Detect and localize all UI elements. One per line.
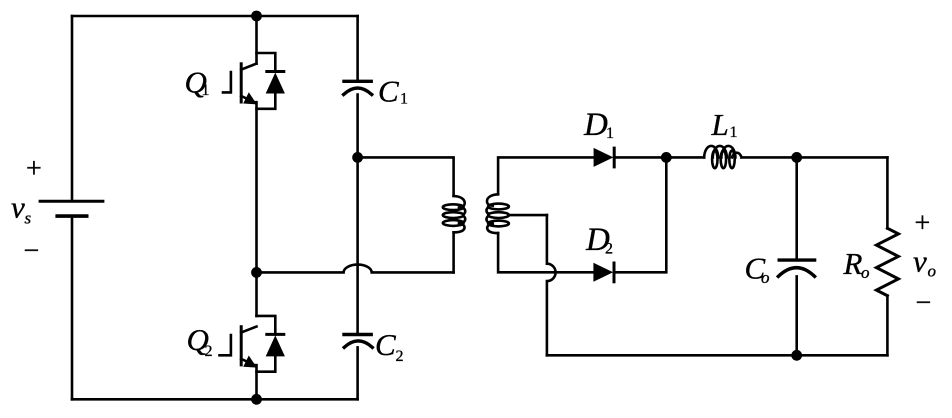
wire D1 cathode to node B <box>614 156 704 159</box>
wire Co branch bottom <box>795 276 798 355</box>
wire top rail <box>72 15 358 18</box>
wire secondary top lead to D1 <box>498 157 593 194</box>
Q1 diode branch top wire <box>257 53 276 72</box>
capacitor Co <box>778 260 814 276</box>
Q2 diode branch bottom wire <box>257 356 276 372</box>
Q1 freewheel diode cathode bar <box>267 70 284 73</box>
svg-text:v: v <box>11 190 25 225</box>
Q2 freewheel diode cathode bar <box>267 333 284 336</box>
wire center tap down to bottom rail (with hop over D2 wire) <box>547 215 556 355</box>
Q2 diode branch top wire <box>257 316 276 335</box>
wire left rail upper (battery top lead) <box>71 16 74 201</box>
svg-text:D: D <box>583 107 608 143</box>
node A (C1-C2 junction) <box>352 152 363 163</box>
battery vs short plate <box>57 214 86 218</box>
Q2 emitter arrow <box>243 356 257 368</box>
svg-text:1: 1 <box>400 90 408 107</box>
wire left rail lower (battery bottom lead) <box>71 217 74 400</box>
node B (D1-D2 cathodes / L1) <box>661 152 672 163</box>
Q1 emitter arrow <box>243 92 257 104</box>
svg-text:C: C <box>378 74 399 109</box>
transistor Q1 (IGBT) <box>223 53 285 109</box>
svg-text:o: o <box>761 268 770 287</box>
svg-text:s: s <box>25 209 32 228</box>
wire half-bridge midpoint to primary bottom (with hop over C branch) <box>257 265 454 273</box>
wire Q branch middle <box>255 102 258 316</box>
svg-text:+: + <box>915 208 931 239</box>
Q1 collector diagonal <box>241 64 256 70</box>
transformer secondary winding <box>486 194 508 233</box>
svg-text:+: + <box>26 154 42 185</box>
svg-text:1: 1 <box>606 125 614 142</box>
transistor Q2 (IGBT) <box>220 316 285 372</box>
wire secondary bottom lead to D2 <box>498 233 593 272</box>
wire C branch top <box>356 16 359 81</box>
svg-text:C: C <box>375 327 396 362</box>
C2 curved plate <box>344 341 372 348</box>
svg-text:o: o <box>928 262 937 281</box>
wire secondary center tap <box>509 214 547 217</box>
wire Q2 emitter to bottom rail <box>255 365 258 399</box>
resistor Ro zigzag <box>876 228 898 295</box>
svg-text:o: o <box>861 263 870 282</box>
diode D2 <box>593 263 614 282</box>
wire bottom-left rail <box>72 398 358 401</box>
wire node A to primary top <box>358 157 454 196</box>
Q1 freewheel diode triangle <box>266 73 285 94</box>
svg-text:−: − <box>24 236 40 267</box>
Q2 body bar <box>240 327 243 365</box>
wire primary bottom lead <box>452 232 455 272</box>
C2 flat plate <box>344 333 371 336</box>
transformer primary winding <box>443 196 465 232</box>
wire C branch bottom <box>356 347 359 399</box>
wire right branch down to resistor <box>886 157 889 228</box>
wire resistor bottom to bottom-right rail <box>886 296 889 356</box>
wire bottom-right rail <box>547 354 888 357</box>
svg-text:L: L <box>711 107 729 142</box>
Q1 diode branch bottom wire <box>257 93 276 109</box>
wire Co branch top <box>795 157 798 260</box>
wire C branch mid (C1 to C2, crosses horizontal) <box>356 95 359 335</box>
capacitor C2 <box>344 335 372 348</box>
svg-text:2: 2 <box>396 348 404 365</box>
Co flat plate <box>779 258 814 261</box>
diode D1 <box>594 148 615 167</box>
node C (L1 / Co / Ro top) <box>791 152 802 163</box>
node D (Co / Ro bottom) <box>791 350 802 361</box>
Q1 gate stub <box>223 72 231 92</box>
Co curved plate <box>778 268 814 277</box>
wire D2 cathode up to node B <box>614 157 666 272</box>
battery vs long plate <box>40 200 103 203</box>
node half-bridge midpoint <box>251 267 262 278</box>
svg-text:2: 2 <box>205 343 213 360</box>
Q2 freewheel diode triangle <box>266 335 285 356</box>
svg-text:v: v <box>913 244 927 279</box>
node top (Q1 collector / top rail) <box>251 11 262 22</box>
inductor L1 <box>704 146 741 168</box>
Q1 emitter diagonal <box>241 96 254 102</box>
svg-text:1: 1 <box>730 124 738 141</box>
C1 curved plate <box>344 88 372 95</box>
svg-text:1: 1 <box>202 82 210 99</box>
C1 flat plate <box>344 80 371 83</box>
svg-text:−: − <box>916 288 932 319</box>
svg-text:2: 2 <box>605 241 613 258</box>
capacitor C1 <box>344 81 372 94</box>
Q2 emitter diagonal <box>241 359 254 365</box>
svg-text:R: R <box>843 246 863 281</box>
Q2 gate stub <box>220 335 231 355</box>
Q1 body bar <box>240 64 243 102</box>
node bottom (Q2 emitter / bottom rail) <box>251 394 262 405</box>
wire Q branch collector top <box>255 16 258 64</box>
wire L1 to node C to top-right corner <box>742 156 888 159</box>
Q2 collector diagonal <box>241 327 256 333</box>
